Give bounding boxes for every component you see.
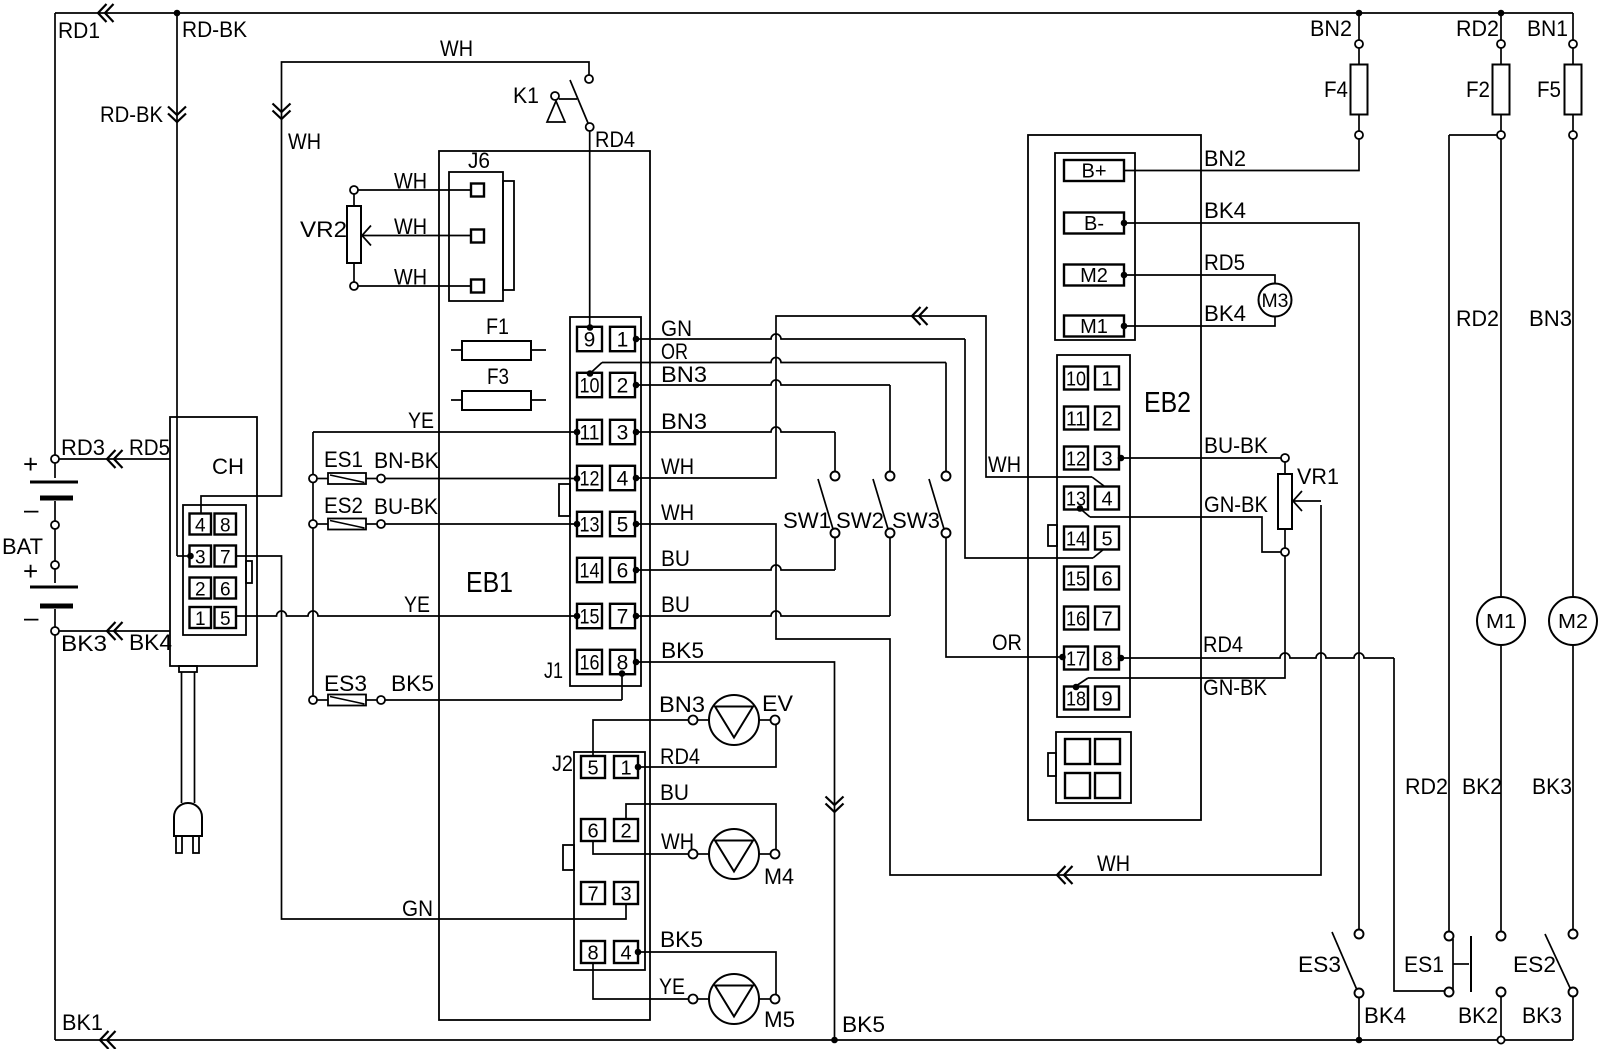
svg-text:6: 6 [220, 579, 231, 600]
thermal fuse ES1 [309, 447, 385, 484]
svg-text:RD2: RD2 [1456, 16, 1499, 41]
svg-text:14: 14 [580, 559, 600, 582]
svg-text:VR1: VR1 [1297, 464, 1339, 489]
wire BK3/BK4 (battery - to CH) [59, 622, 172, 656]
svg-text:14: 14 [1066, 528, 1086, 550]
motor M5 [689, 974, 796, 1032]
svg-text:2: 2 [195, 579, 206, 600]
wire BK5 (EB1 pin 8 to bottom bus) [633, 638, 885, 1040]
svg-text:BN3: BN3 [659, 692, 705, 717]
switch SW1 [783, 472, 840, 538]
svg-text:WH: WH [394, 265, 427, 290]
junction node BK5 / bottom bus [831, 1037, 838, 1044]
svg-text:8: 8 [1101, 648, 1112, 670]
potentiometer VR1 [1278, 454, 1339, 556]
svg-text:F4: F4 [1324, 77, 1348, 102]
svg-text:BN2: BN2 [1310, 16, 1352, 41]
svg-text:10: 10 [580, 374, 600, 397]
svg-text:1: 1 [195, 609, 206, 630]
svg-text:EB1: EB1 [466, 567, 513, 599]
svg-text:ES1: ES1 [324, 447, 363, 472]
fuse F2 [1456, 13, 1510, 139]
svg-text:F3: F3 [487, 364, 509, 389]
thermal fuse ES3 [309, 671, 385, 706]
board EB1 [439, 151, 650, 1020]
connector EB2 power block [1055, 153, 1135, 340]
svg-text:BK1: BK1 [62, 1010, 103, 1035]
switch ES3 [1298, 930, 1364, 998]
svg-text:EB2: EB2 [1144, 387, 1191, 419]
svg-text:2: 2 [617, 374, 629, 397]
svg-text:7: 7 [220, 547, 231, 568]
motor M2 [1549, 597, 1597, 645]
svg-text:BK5: BK5 [391, 671, 434, 696]
svg-text:8: 8 [220, 515, 231, 536]
svg-text:2: 2 [620, 820, 631, 842]
svg-text:BK3: BK3 [61, 631, 107, 656]
svg-text:RD-BK: RD-BK [182, 17, 247, 42]
svg-text:13: 13 [580, 513, 600, 536]
wire WH (CH pin 4 to K1) [201, 36, 589, 513]
svg-text:GN-BK: GN-BK [1204, 492, 1268, 517]
svg-text:BU-BK: BU-BK [1204, 433, 1268, 458]
wire GN-BK (EB2 pin 13 to VR1 bottom) [1077, 492, 1281, 552]
svg-text:15: 15 [1066, 568, 1086, 590]
svg-text:ES3: ES3 [1298, 952, 1341, 977]
motor EV [689, 691, 794, 745]
battery BAT [2, 449, 78, 635]
svg-text:J6: J6 [468, 148, 490, 173]
svg-text:YE: YE [659, 974, 685, 999]
wire GN (CH pin 7 to J2 pin 3) [236, 556, 626, 921]
svg-text:7: 7 [1101, 608, 1112, 630]
svg-text:F2: F2 [1466, 77, 1490, 102]
power plug [174, 666, 202, 853]
wire left bus RD1 [55, 13, 100, 1040]
wire BN3 (F5 to M2) [1529, 139, 1573, 597]
svg-text:6: 6 [1101, 568, 1112, 590]
svg-text:11: 11 [1066, 408, 1086, 430]
svg-text:OR: OR [661, 339, 688, 364]
charger CH box [170, 417, 257, 666]
connector CH pin block [183, 505, 252, 635]
svg-text:RD5: RD5 [129, 435, 170, 460]
wire RD4 (EV to J2 pin 1) [635, 725, 776, 771]
svg-text:3: 3 [620, 883, 631, 905]
wire WH (VR2 top to J6) [358, 169, 471, 194]
wire RD2 (F2 to M1) [1456, 139, 1501, 597]
wire YE (J2 pin 8 to M5) [593, 963, 688, 999]
svg-text:4: 4 [1101, 488, 1112, 510]
connector J6 [449, 148, 514, 301]
svg-text:15: 15 [580, 605, 600, 628]
connector EB2 pin block [1048, 355, 1130, 717]
wire BK3 (M2 to ES2) [1532, 645, 1573, 930]
svg-text:5: 5 [1101, 528, 1112, 550]
svg-text:BK2: BK2 [1458, 1003, 1498, 1028]
wire GN (EB1 pin 1 to EB2 pin 5) [633, 316, 1104, 558]
svg-text:BU: BU [661, 546, 690, 571]
svg-text:RD2: RD2 [1456, 306, 1499, 331]
wire RD5 (M2 to M3) [1121, 250, 1275, 283]
svg-text:3: 3 [617, 421, 629, 444]
wire BK3 (ES2 to bottom bus) [1522, 997, 1573, 1041]
wire BU-BK (ES2 to EB1 pin 13) [374, 494, 580, 527]
svg-text:ES1: ES1 [1404, 952, 1444, 977]
wire BK2 (M1 to ES2) [1462, 645, 1502, 932]
svg-text:WH: WH [394, 169, 427, 194]
svg-text:BU: BU [660, 780, 689, 805]
svg-text:4: 4 [195, 515, 206, 536]
svg-text:M3: M3 [1262, 291, 1289, 312]
svg-text:18: 18 [1066, 688, 1086, 710]
wire BN2 (B+ to fuse F4) [1124, 139, 1359, 171]
potentiometer VR2 [300, 186, 371, 290]
wire WH (VR2 wiper to J6) [362, 214, 471, 239]
svg-text:1: 1 [620, 757, 631, 779]
connector J2 (EB1) [552, 751, 645, 970]
svg-text:RD2: RD2 [1405, 774, 1448, 799]
svg-text:BK3: BK3 [1532, 774, 1572, 799]
svg-text:M4: M4 [764, 864, 794, 889]
svg-text:17: 17 [1066, 648, 1086, 670]
wire bottom bus BK1 [55, 1010, 1573, 1049]
wire BK5 (J2 pin 4 to M5) [635, 927, 776, 994]
svg-text:BN3: BN3 [661, 362, 707, 387]
connector EB2 aux 4-pin [1048, 732, 1131, 803]
svg-text:16: 16 [580, 651, 600, 674]
svg-text:YE: YE [404, 592, 430, 617]
svg-text:4: 4 [617, 467, 629, 490]
wire YE (CH pin 5 to EB1 pin 15) [236, 592, 580, 619]
svg-text:BK4: BK4 [129, 630, 172, 655]
board EB2 [1028, 135, 1201, 820]
switch ES2 (2-pole) [1497, 930, 1578, 997]
wire ES sensor column [312, 432, 314, 696]
svg-text:7: 7 [587, 883, 598, 905]
wire RD-BK (top bus to CH pin 3) [100, 13, 247, 559]
svg-text:SW3: SW3 [892, 508, 940, 533]
svg-text:5: 5 [617, 513, 629, 536]
svg-text:WH: WH [661, 454, 694, 479]
svg-text:RD1: RD1 [58, 18, 100, 43]
svg-text:RD5: RD5 [1204, 250, 1245, 275]
svg-text:YE: YE [408, 408, 434, 433]
svg-text:WH: WH [661, 500, 694, 525]
svg-text:OR: OR [992, 630, 1022, 655]
svg-text:4: 4 [620, 942, 631, 964]
svg-text:–: – [24, 494, 39, 524]
svg-text:BU-BK: BU-BK [374, 494, 438, 519]
svg-text:F1: F1 [486, 314, 509, 339]
switch SW2 [836, 472, 895, 538]
wire RD4 (EB2 pin 8 to ES1) [1118, 632, 1445, 991]
svg-text:GN: GN [661, 316, 692, 341]
wire BK4 (B- to ES3) [1121, 198, 1359, 930]
motor M3 [1259, 284, 1292, 317]
wire BU (J2 pin 2 to M4) [626, 780, 776, 849]
svg-text:BN3: BN3 [1529, 306, 1572, 331]
wire BN-BK (ES1 to EB1 pin 12) [374, 448, 580, 482]
junction node top bus / F2 [1498, 10, 1505, 17]
svg-text:1: 1 [1101, 368, 1112, 390]
svg-text:WH: WH [1097, 851, 1130, 876]
svg-text:M1: M1 [1486, 611, 1516, 633]
wire WH (EB1 pin 4 to EB2 pin 4) [633, 307, 1104, 486]
wire BK5 (ES3 to J1 pin 8) [385, 670, 625, 700]
fuse F4 [1310, 13, 1368, 139]
svg-text:5: 5 [220, 609, 231, 630]
svg-text:WH: WH [288, 129, 321, 154]
svg-text:BK4: BK4 [1364, 1003, 1406, 1028]
svg-text:+: + [23, 449, 38, 479]
wire RD3/RD5 (battery + to CH) [59, 435, 170, 468]
wire top bus RD1/BN2 [55, 4, 1573, 22]
svg-text:2: 2 [1101, 408, 1112, 430]
svg-text:BN-BK: BN-BK [374, 448, 439, 473]
svg-text:BAT: BAT [2, 534, 43, 559]
junction node top bus / RD-BK [174, 10, 181, 17]
svg-text:7: 7 [617, 605, 629, 628]
svg-text:RD4: RD4 [1203, 632, 1243, 657]
svg-text:J2: J2 [552, 751, 573, 776]
connector J1 (EB1) [544, 317, 641, 686]
svg-text:3: 3 [195, 547, 206, 568]
svg-text:WH: WH [394, 214, 427, 239]
svg-text:6: 6 [587, 820, 598, 842]
wire BN3 (J2 pin 5 to EV) [593, 692, 705, 756]
svg-text:BK3: BK3 [1522, 1003, 1562, 1028]
svg-text:6: 6 [617, 559, 629, 582]
svg-text:CH: CH [212, 454, 244, 479]
svg-text:BN1: BN1 [1527, 16, 1568, 41]
svg-text:8: 8 [587, 942, 598, 964]
svg-text:+: + [23, 556, 38, 586]
wire BN3 (EB1 pin 3 to SW1) [633, 409, 835, 472]
motor M4 [689, 829, 795, 889]
fuse F5 [1527, 13, 1582, 139]
svg-text:12: 12 [1066, 448, 1086, 470]
wire BK4 (ES3 to bottom bus) [1356, 998, 1406, 1044]
wire BK2 (ES2 to bottom bus) [1458, 997, 1505, 1044]
wire OR (EB1 pin 10 to SW3) [587, 339, 946, 472]
thermal fuse ES2 [309, 493, 385, 530]
wire WH (EB1 pin 5 to VR1 wiper) [633, 500, 1321, 884]
svg-text:M5: M5 [764, 1007, 795, 1032]
wire WH (VR2 bottom to J6) [358, 265, 471, 290]
svg-text:WH: WH [661, 829, 694, 854]
svg-text:J1: J1 [544, 658, 563, 683]
svg-text:BK5: BK5 [842, 1012, 885, 1037]
svg-text:RD-BK: RD-BK [100, 102, 163, 127]
wire BN3 (EB1 pin 2 to SW2) [633, 362, 890, 472]
svg-text:BK5: BK5 [660, 927, 703, 952]
svg-text:–: – [24, 602, 39, 632]
svg-text:9: 9 [584, 328, 596, 351]
wire BK4 (M1 to M3) [1121, 301, 1275, 329]
wire OR (SW3 to EB2 pin 17) [946, 538, 1066, 661]
svg-text:K1: K1 [513, 83, 539, 108]
svg-text:BN3: BN3 [661, 409, 707, 434]
svg-text:RD4: RD4 [660, 744, 700, 769]
relay K1 [513, 75, 594, 131]
svg-text:M1: M1 [1080, 316, 1108, 338]
svg-text:ES2: ES2 [324, 493, 363, 518]
svg-text:SW1: SW1 [783, 508, 831, 533]
wire RD2 (F2 to ES1) [1405, 135, 1497, 932]
svg-text:BU: BU [661, 592, 690, 617]
wire BU (EB1 pin 6 to SW1) [633, 538, 835, 574]
switch SW3 [892, 472, 951, 538]
svg-text:SW2: SW2 [836, 508, 884, 533]
svg-text:GN: GN [402, 896, 433, 921]
svg-text:WH: WH [988, 452, 1021, 477]
svg-text:RD4: RD4 [595, 127, 635, 152]
svg-text:12: 12 [580, 467, 600, 490]
svg-text:11: 11 [580, 421, 600, 444]
wire YE (ES column to EB1 pin 11) [313, 408, 580, 435]
svg-text:BK5: BK5 [661, 638, 704, 663]
svg-text:RD3: RD3 [61, 435, 105, 460]
junction node top bus / F4 [1356, 10, 1363, 17]
svg-text:BN2: BN2 [1204, 146, 1246, 171]
svg-text:ES2: ES2 [1513, 952, 1556, 977]
svg-text:16: 16 [1066, 608, 1086, 630]
svg-text:BK2: BK2 [1462, 774, 1502, 799]
svg-text:M2: M2 [1080, 265, 1108, 287]
wire RD4 (K1 to EB1 pin 9) [587, 127, 635, 331]
wire GN-BK (VR1 bottom to EB2 pin 18) [1073, 556, 1285, 700]
svg-text:VR2: VR2 [300, 217, 347, 242]
svg-text:F5: F5 [1537, 77, 1561, 102]
svg-text:B+: B+ [1081, 161, 1106, 183]
switch ES1 (NC) [1404, 932, 1471, 997]
fuse F3 [451, 364, 546, 410]
svg-text:BK4: BK4 [1204, 198, 1246, 223]
svg-text:9: 9 [1101, 688, 1112, 710]
svg-text:B-: B- [1084, 213, 1104, 235]
svg-text:WH: WH [440, 36, 473, 61]
svg-text:GN-BK: GN-BK [1203, 675, 1267, 700]
svg-text:10: 10 [1066, 368, 1086, 390]
svg-text:5: 5 [587, 757, 598, 779]
svg-text:13: 13 [1066, 488, 1086, 510]
svg-text:BK4: BK4 [1204, 301, 1246, 326]
svg-text:3: 3 [1101, 448, 1112, 470]
svg-text:EV: EV [762, 691, 793, 716]
wire BU (EB1 pin 7 to SW2) [633, 538, 890, 620]
svg-text:1: 1 [617, 328, 629, 351]
svg-text:M2: M2 [1558, 611, 1588, 633]
wire WH (J2 pin 6 to M4) [593, 829, 694, 854]
svg-text:ES3: ES3 [324, 671, 367, 696]
wire BU-BK (EB2 pin 3 to VR1) [1118, 433, 1281, 461]
motor M1 [1477, 597, 1525, 645]
fuse F1 [451, 314, 546, 360]
